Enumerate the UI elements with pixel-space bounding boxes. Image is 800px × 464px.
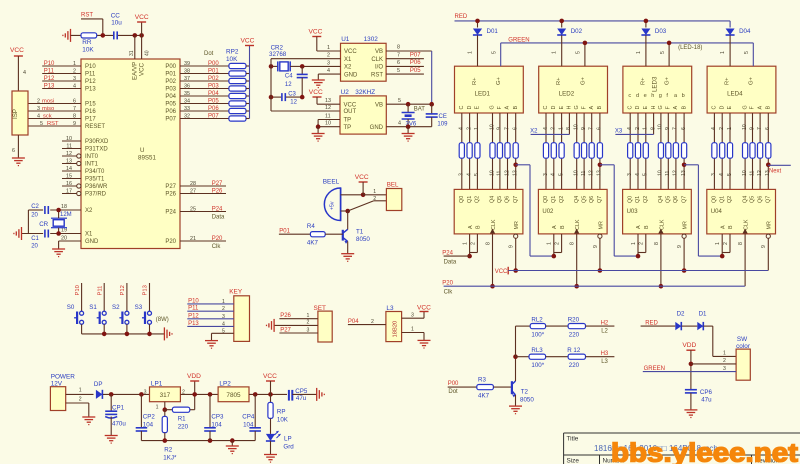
wire U02 CLK stub — [576, 234, 578, 286]
wire U02 MR stub — [598, 234, 602, 238]
svg-text:C: C — [543, 106, 549, 110]
svg-text:D2: D2 — [677, 311, 685, 318]
svg-text:Title: Title — [567, 436, 579, 443]
svg-text:10: 10 — [489, 124, 495, 130]
resistor network digit 4 — [712, 143, 717, 159]
svg-text:RST: RST — [371, 72, 383, 78]
svg-text:Q0: Q0 — [627, 196, 633, 203]
svg-text:P13: P13 — [85, 87, 96, 93]
svg-text:3: 3 — [307, 327, 310, 333]
svg-text:Q0: Q0 — [543, 196, 549, 203]
svg-text:2: 2 — [79, 397, 82, 403]
svg-text:10: 10 — [489, 170, 495, 176]
svg-text:3: 3 — [327, 60, 330, 66]
svg-text:LED1: LED1 — [475, 91, 491, 98]
ground (ISP) — [12, 157, 25, 159]
svg-text:7: 7 — [757, 127, 763, 130]
svg-text:LED3: LED3 — [651, 76, 658, 92]
wire crystal bus to U2 OUT — [270, 59, 272, 111]
svg-text:2: 2 — [327, 53, 330, 59]
junction node MR rail 1 — [513, 268, 518, 273]
junction nodes switch bus — [102, 332, 107, 337]
svg-text:18B20: 18B20 — [393, 321, 399, 338]
svg-text:VCC: VCC — [309, 29, 323, 36]
svg-text:P27: P27 — [165, 184, 176, 190]
wire P00 to R3 — [448, 386, 477, 388]
svg-text:RST: RST — [81, 13, 93, 19]
capacitor CP3 104 — [209, 394, 211, 427]
svg-text:Q4: Q4 — [742, 196, 748, 203]
svg-text:A: A — [636, 225, 642, 229]
svg-text:109: 109 — [437, 121, 448, 127]
svg-text:CLK: CLK — [575, 219, 581, 230]
svg-text:P24: P24 — [165, 210, 176, 216]
svg-text:4: 4 — [37, 113, 40, 119]
svg-text:Data: Data — [444, 260, 457, 266]
svg-text:2: 2 — [307, 320, 310, 326]
svg-text:10: 10 — [658, 170, 664, 176]
svg-text:Q1: Q1 — [635, 196, 641, 203]
svg-text:ISP: ISP — [12, 109, 19, 119]
svg-text:R+: R+ — [472, 77, 478, 85]
junction node U04 A — [720, 254, 725, 259]
wire U2 VCC pin 13 — [316, 97, 318, 104]
svg-text:Q2: Q2 — [559, 196, 565, 203]
svg-text:CP6: CP6 — [700, 389, 713, 396]
svg-text:3: 3 — [627, 173, 633, 176]
svg-text:INT0: INT0 — [85, 154, 99, 160]
svg-text:11: 11 — [665, 171, 671, 176]
diode D01 — [477, 21, 479, 28]
svg-text:Q5: Q5 — [581, 196, 587, 203]
svg-text:bbs.yleee.net: bbs.yleee.net — [611, 440, 799, 464]
ground (POWER) — [82, 416, 95, 418]
shift register U04 body — [707, 189, 776, 234]
svg-text:D1: D1 — [699, 311, 707, 318]
svg-text:10: 10 — [325, 121, 331, 127]
svg-text:10K: 10K — [82, 47, 94, 54]
svg-text:VCC: VCC — [263, 373, 277, 380]
svg-text:5: 5 — [643, 173, 649, 176]
svg-text:E: E — [727, 106, 733, 110]
svg-text:S1: S1 — [89, 304, 97, 311]
svg-text:C1: C1 — [31, 236, 39, 242]
svg-text:20: 20 — [31, 244, 38, 250]
svg-text:P15: P15 — [85, 102, 96, 108]
svg-text:Q4: Q4 — [658, 196, 664, 203]
svg-text:25: 25 — [190, 206, 196, 212]
svg-text:Q1: Q1 — [551, 196, 557, 203]
resistor R2 1K — [164, 410, 166, 417]
svg-text:3: 3 — [37, 106, 40, 112]
svg-text:X2: X2 — [344, 65, 352, 71]
svg-text:P13: P13 — [188, 321, 199, 327]
svg-text:5: 5 — [398, 98, 401, 104]
ground (T2) — [509, 405, 522, 407]
junction node LP1 adj — [163, 407, 168, 412]
junction node MR rail 3 — [682, 268, 687, 273]
wire L3 pin2 — [348, 324, 386, 326]
svg-text:P05: P05 — [208, 98, 219, 104]
svg-text:U2: U2 — [341, 89, 350, 96]
svg-text:G+: G+ — [580, 76, 586, 85]
wire T2 emitter ground — [515, 395, 517, 406]
capacitor CP4 104 — [254, 394, 256, 427]
resistor network digit 1 — [459, 143, 464, 159]
junction node VDD — [192, 392, 197, 397]
svg-text:R+: R+ — [725, 77, 731, 85]
wires LED2 segment columns — [545, 113, 547, 143]
wire U02 B stub — [561, 234, 563, 253]
svg-text:MR: MR — [767, 221, 773, 229]
svg-text:Clk: Clk — [212, 244, 222, 250]
svg-text:Data: Data — [212, 215, 225, 221]
resistor RL2 100* — [530, 324, 545, 329]
resistor RR 10K — [81, 33, 97, 38]
ground (CP6) — [684, 409, 697, 411]
capacitor C3 12 — [271, 96, 281, 98]
svg-text:B: B — [560, 225, 566, 229]
svg-text:P26: P26 — [280, 313, 291, 319]
svg-text:Q7: Q7 — [597, 196, 603, 203]
svg-text:104: 104 — [211, 422, 222, 429]
wire POWER pin2 to ground — [66, 402, 89, 404]
wire LP1 adj pin1 — [164, 402, 166, 410]
wire T1 emitter to ground — [347, 241, 349, 253]
svg-text:1: 1 — [558, 127, 564, 130]
svg-text:2: 2 — [37, 98, 40, 104]
svg-text:P01: P01 — [208, 68, 219, 74]
svg-text:10: 10 — [574, 170, 580, 176]
svg-text:13: 13 — [325, 98, 331, 104]
svg-text:32768: 32768 — [269, 51, 287, 58]
svg-text:G+: G+ — [665, 76, 671, 85]
svg-text:(8W): (8W) — [156, 317, 169, 323]
svg-text:GND: GND — [344, 72, 358, 78]
svg-text:P35/T1: P35/T1 — [85, 177, 105, 183]
crystal CR 12M — [53, 220, 64, 227]
svg-text:E: E — [643, 106, 649, 110]
svg-text:C4: C4 — [285, 74, 293, 80]
svg-text:mosi: mosi — [42, 98, 54, 104]
svg-text:LP2: LP2 — [219, 380, 231, 387]
svg-text:P17: P17 — [85, 117, 96, 123]
svg-text:9: 9 — [509, 245, 515, 248]
svg-text:P00: P00 — [208, 61, 219, 67]
svg-text:G: G — [658, 105, 664, 109]
wire mcu P10-P13 stubs — [42, 65, 81, 67]
wire RL3 row — [516, 356, 530, 358]
svg-text:A: A — [673, 106, 679, 110]
junction node CP1 — [109, 392, 114, 397]
svg-text:20: 20 — [31, 213, 38, 219]
svg-text:P13: P13 — [44, 83, 55, 89]
svg-text:g: g — [659, 93, 662, 99]
svg-text:1: 1 — [715, 242, 721, 245]
power VCC (U2) — [313, 96, 322, 98]
svg-text:5: 5 — [660, 51, 666, 54]
svg-text:B: B — [681, 106, 687, 110]
wire R4 to T1 base — [325, 233, 343, 235]
svg-text:220: 220 — [569, 362, 580, 369]
svg-text:D02: D02 — [571, 28, 583, 35]
svg-text:P37/RD: P37/RD — [85, 192, 107, 198]
svg-text:sck: sck — [43, 113, 52, 119]
svg-text:8: 8 — [397, 45, 400, 51]
svg-text:1KJ*: 1KJ* — [163, 455, 177, 462]
power VCC (L3) — [420, 311, 429, 313]
wire CLK bus — [444, 285, 745, 287]
svg-text:RP: RP — [277, 409, 286, 416]
svg-text:Q1: Q1 — [467, 196, 473, 203]
ground (U2 TP) — [312, 133, 325, 135]
resistor R4 4K7 — [310, 232, 325, 237]
svg-text:R+: R+ — [556, 77, 562, 85]
junction node crystal right — [300, 64, 305, 69]
svg-text:P07: P07 — [208, 113, 219, 119]
wire U1 VCC pin 1 — [316, 37, 318, 52]
svg-text:VDD: VDD — [187, 373, 201, 380]
svg-text:104: 104 — [143, 422, 154, 429]
wire LP2 out rail — [249, 393, 287, 395]
wire SET pin2 to ground — [274, 324, 318, 326]
svg-text:10: 10 — [574, 124, 580, 130]
svg-text:P12: P12 — [120, 285, 126, 295]
wire RP2 common bus to VCC — [249, 46, 251, 119]
svg-text:H: H — [567, 106, 573, 110]
junction node C3 left — [269, 95, 274, 100]
wire buzzer VCC to BEL pin1 — [363, 194, 386, 196]
svg-text:G: G — [742, 105, 748, 109]
svg-text:D01: D01 — [487, 28, 499, 35]
svg-text:BEL: BEL — [387, 182, 399, 189]
svg-text:P24: P24 — [442, 250, 453, 256]
junction node CE top — [429, 102, 434, 107]
svg-text:P20: P20 — [442, 280, 453, 286]
svg-text:P16: P16 — [85, 109, 96, 115]
svg-text:47u: 47u — [701, 397, 712, 404]
power VDD (sw) — [686, 349, 695, 351]
svg-text:P07: P07 — [410, 52, 421, 58]
junction node RED/D01 — [475, 19, 480, 24]
wire U2 VB pin 5 — [386, 103, 431, 105]
wire D2 to D1 — [682, 325, 698, 327]
wire H pin stub LED3 — [653, 113, 655, 134]
junction node buzzer bottom — [345, 209, 350, 214]
svg-text:P00: P00 — [448, 381, 459, 387]
svg-text:1: 1 — [631, 242, 637, 245]
svg-text:VCC: VCC — [417, 304, 431, 311]
svg-text:LED4: LED4 — [727, 91, 743, 98]
wire mcu P27 stub — [180, 185, 226, 187]
wire G+ drop LED3 — [668, 43, 670, 66]
svg-text:6: 6 — [12, 148, 15, 154]
svg-text:P04: P04 — [208, 91, 219, 97]
svg-text:S2: S2 — [112, 304, 120, 311]
svg-text:4: 4 — [711, 127, 717, 130]
svg-text:Q5: Q5 — [750, 196, 756, 203]
wire ISP to ground — [17, 135, 19, 158]
svg-text:7: 7 — [504, 127, 510, 130]
title block frame — [564, 432, 800, 434]
svg-text:VCC: VCC — [309, 89, 323, 96]
junction node TP — [316, 124, 321, 129]
svg-text:B: B — [766, 106, 772, 110]
svg-text:Next: Next — [769, 168, 782, 174]
svg-text:1: 1 — [222, 299, 225, 305]
wire Data to U01 — [444, 255, 470, 257]
svg-text:2: 2 — [551, 127, 557, 130]
svg-text:2: 2 — [635, 127, 641, 130]
svg-text:B: B — [644, 225, 650, 229]
svg-text:3: 3 — [459, 173, 465, 176]
wires mcu P00-P07 to RP2 — [180, 65, 229, 67]
shift register U02 body — [538, 189, 607, 234]
svg-text:RL2: RL2 — [531, 316, 543, 323]
svg-text:3: 3 — [723, 366, 726, 372]
svg-text:P12: P12 — [44, 76, 55, 82]
svg-text:R3: R3 — [478, 376, 486, 383]
svg-text:32KHZ: 32KHZ — [355, 89, 375, 96]
wire R20 out H2 — [586, 325, 615, 327]
svg-text:BEEL: BEEL — [323, 179, 340, 186]
svg-text:CP2: CP2 — [143, 414, 156, 421]
wire R1 to VDD node — [194, 381, 196, 410]
svg-text:15: 15 — [66, 173, 72, 179]
svg-text:6: 6 — [681, 127, 687, 130]
svg-text:VCC: VCC — [135, 14, 149, 21]
svg-text:MR: MR — [514, 221, 520, 229]
wire U1 I/O pin 6 — [386, 65, 424, 67]
svg-text:G+: G+ — [749, 76, 755, 85]
svg-text:Q4: Q4 — [490, 196, 496, 203]
svg-text:P01: P01 — [279, 228, 290, 234]
svg-text:X3: X3 — [615, 129, 623, 135]
svg-text:8: 8 — [73, 113, 76, 119]
svg-text:34: 34 — [184, 98, 190, 104]
svg-text:7: 7 — [589, 127, 595, 130]
wire U03 B stub — [645, 234, 647, 253]
wire U04 CLK stub — [744, 234, 746, 286]
svg-text:RESET: RESET — [85, 124, 105, 130]
wire SET pin3 — [279, 332, 318, 334]
wire VDD to SW pin2 — [690, 350, 692, 389]
svg-text:C: C — [459, 106, 465, 110]
svg-text:6: 6 — [73, 98, 76, 104]
svg-text:d: d — [636, 93, 639, 99]
svg-text:CP5: CP5 — [295, 388, 308, 395]
svg-text:X2: X2 — [530, 129, 538, 135]
svg-text:U02: U02 — [542, 209, 554, 215]
svg-text:X1: X1 — [344, 57, 352, 63]
svg-text:38: 38 — [184, 68, 190, 74]
svg-text:U: U — [140, 147, 144, 154]
ground (T1) — [341, 253, 354, 255]
junction node U02 A — [552, 254, 557, 259]
svg-text:RED: RED — [455, 14, 468, 20]
wire U01 B stub — [476, 234, 478, 253]
svg-text:8050: 8050 — [356, 236, 370, 243]
svg-text:2: 2 — [723, 242, 729, 245]
svg-text:1: 1 — [73, 61, 76, 67]
svg-text:1302: 1302 — [364, 36, 379, 43]
svg-text:10: 10 — [742, 124, 748, 130]
capacitor CP2 104 — [140, 394, 142, 427]
svg-text:P06: P06 — [208, 106, 219, 112]
svg-text:A: A — [757, 106, 763, 110]
wire R12 out H3 — [586, 356, 615, 358]
svg-text:P03: P03 — [165, 87, 176, 93]
svg-text:Clk: Clk — [444, 290, 454, 296]
svg-text:P03: P03 — [208, 83, 219, 89]
svg-text:P02: P02 — [165, 79, 176, 85]
wire X1 net — [22, 233, 44, 235]
ground (SET) — [273, 319, 275, 332]
svg-text:Q5: Q5 — [497, 196, 503, 203]
svg-text:11: 11 — [749, 171, 755, 176]
svg-text:P11: P11 — [44, 68, 55, 74]
svg-text:P10: P10 — [85, 64, 96, 70]
svg-text:B: B — [728, 225, 734, 229]
rtc U1 1302 body — [341, 43, 387, 81]
svg-text:12: 12 — [285, 82, 292, 88]
wire G+ drop LED1 — [500, 43, 502, 66]
svg-text:P10: P10 — [75, 285, 81, 295]
svg-text:Dot: Dot — [448, 389, 458, 395]
svg-text:RST: RST — [47, 121, 59, 127]
junction node U03 A — [636, 254, 641, 259]
led display LED4 body — [707, 66, 776, 113]
svg-text:11: 11 — [497, 171, 503, 176]
svg-text:12: 12 — [66, 151, 72, 157]
svg-text:6: 6 — [597, 127, 603, 130]
svg-text:19: 19 — [61, 228, 67, 234]
svg-text:317: 317 — [160, 392, 171, 399]
shift register U03 body — [623, 189, 692, 234]
svg-text:T1: T1 — [356, 229, 364, 236]
svg-text:P06: P06 — [410, 60, 421, 66]
svg-text:1: 1 — [727, 127, 733, 130]
svg-text:7: 7 — [73, 106, 76, 112]
power VCC (U1) — [312, 36, 321, 38]
svg-text:13: 13 — [681, 170, 687, 176]
wire P01 to R4 — [279, 233, 311, 235]
svg-text:LP1: LP1 — [151, 380, 163, 387]
svg-text:Q6: Q6 — [673, 196, 679, 203]
svg-text:T2: T2 — [521, 388, 529, 395]
svg-text:9: 9 — [73, 121, 76, 127]
svg-text:37: 37 — [184, 76, 190, 82]
wire ISP to mcu P15/P16/P17/RESET — [28, 103, 81, 105]
svg-text:CP1: CP1 — [112, 405, 125, 412]
svg-text:16: 16 — [66, 181, 72, 187]
svg-text:VB: VB — [375, 102, 383, 108]
svg-text:10: 10 — [742, 170, 748, 176]
svg-text:I/O: I/O — [375, 65, 383, 71]
wire KEY pin 3 — [187, 318, 234, 320]
svg-text:13: 13 — [597, 170, 603, 176]
svg-text:36: 36 — [184, 83, 190, 89]
wire X2 net — [28, 209, 43, 211]
svg-text:CLK: CLK — [659, 219, 665, 230]
svg-text:13: 13 — [66, 158, 72, 164]
svg-text:220: 220 — [569, 331, 580, 338]
wire H pin stub LED2 — [568, 113, 570, 134]
svg-text:c: c — [628, 93, 631, 99]
resistor network digit 2 — [543, 143, 548, 159]
svg-text:104: 104 — [243, 422, 254, 429]
svg-text:X1: X1 — [85, 232, 93, 238]
